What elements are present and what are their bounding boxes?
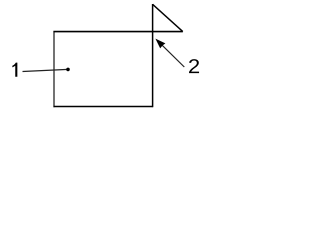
label 1 bbox=[12, 63, 17, 77]
leader line of label 2 bbox=[157, 40, 184, 67]
box left edge bbox=[53, 31, 55, 107]
box top edge extended to flag tip bbox=[53, 31, 182, 33]
arrowhead of label 2 bbox=[155, 39, 165, 49]
box right edge and flag vertical edge bbox=[152, 4, 154, 107]
box bottom edge bbox=[53, 106, 152, 108]
leader dot on label 1 bbox=[66, 68, 70, 72]
leader line of label 1 bbox=[23, 69, 69, 71]
flag hypotenuse bbox=[153, 4, 183, 31]
label 2 bbox=[189, 59, 199, 73]
